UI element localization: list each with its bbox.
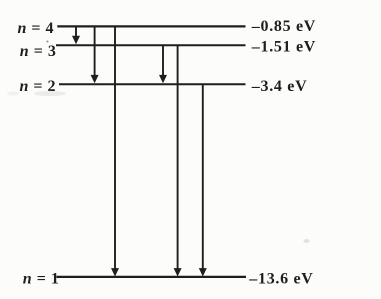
svg-text:–0.85 eV: –0.85 eV (251, 18, 316, 35)
svg-text:–1.51 eV: –1.51 eV (251, 38, 316, 55)
svg-text:n = 1: n = 1 (23, 271, 60, 288)
svg-text:–3.4 eV: –3.4 eV (251, 78, 308, 95)
svg-text:n = 3: n = 3 (20, 43, 57, 60)
svg-text:–13.6 eV: –13.6 eV (248, 270, 313, 287)
svg-text:n = 4: n = 4 (18, 20, 55, 37)
